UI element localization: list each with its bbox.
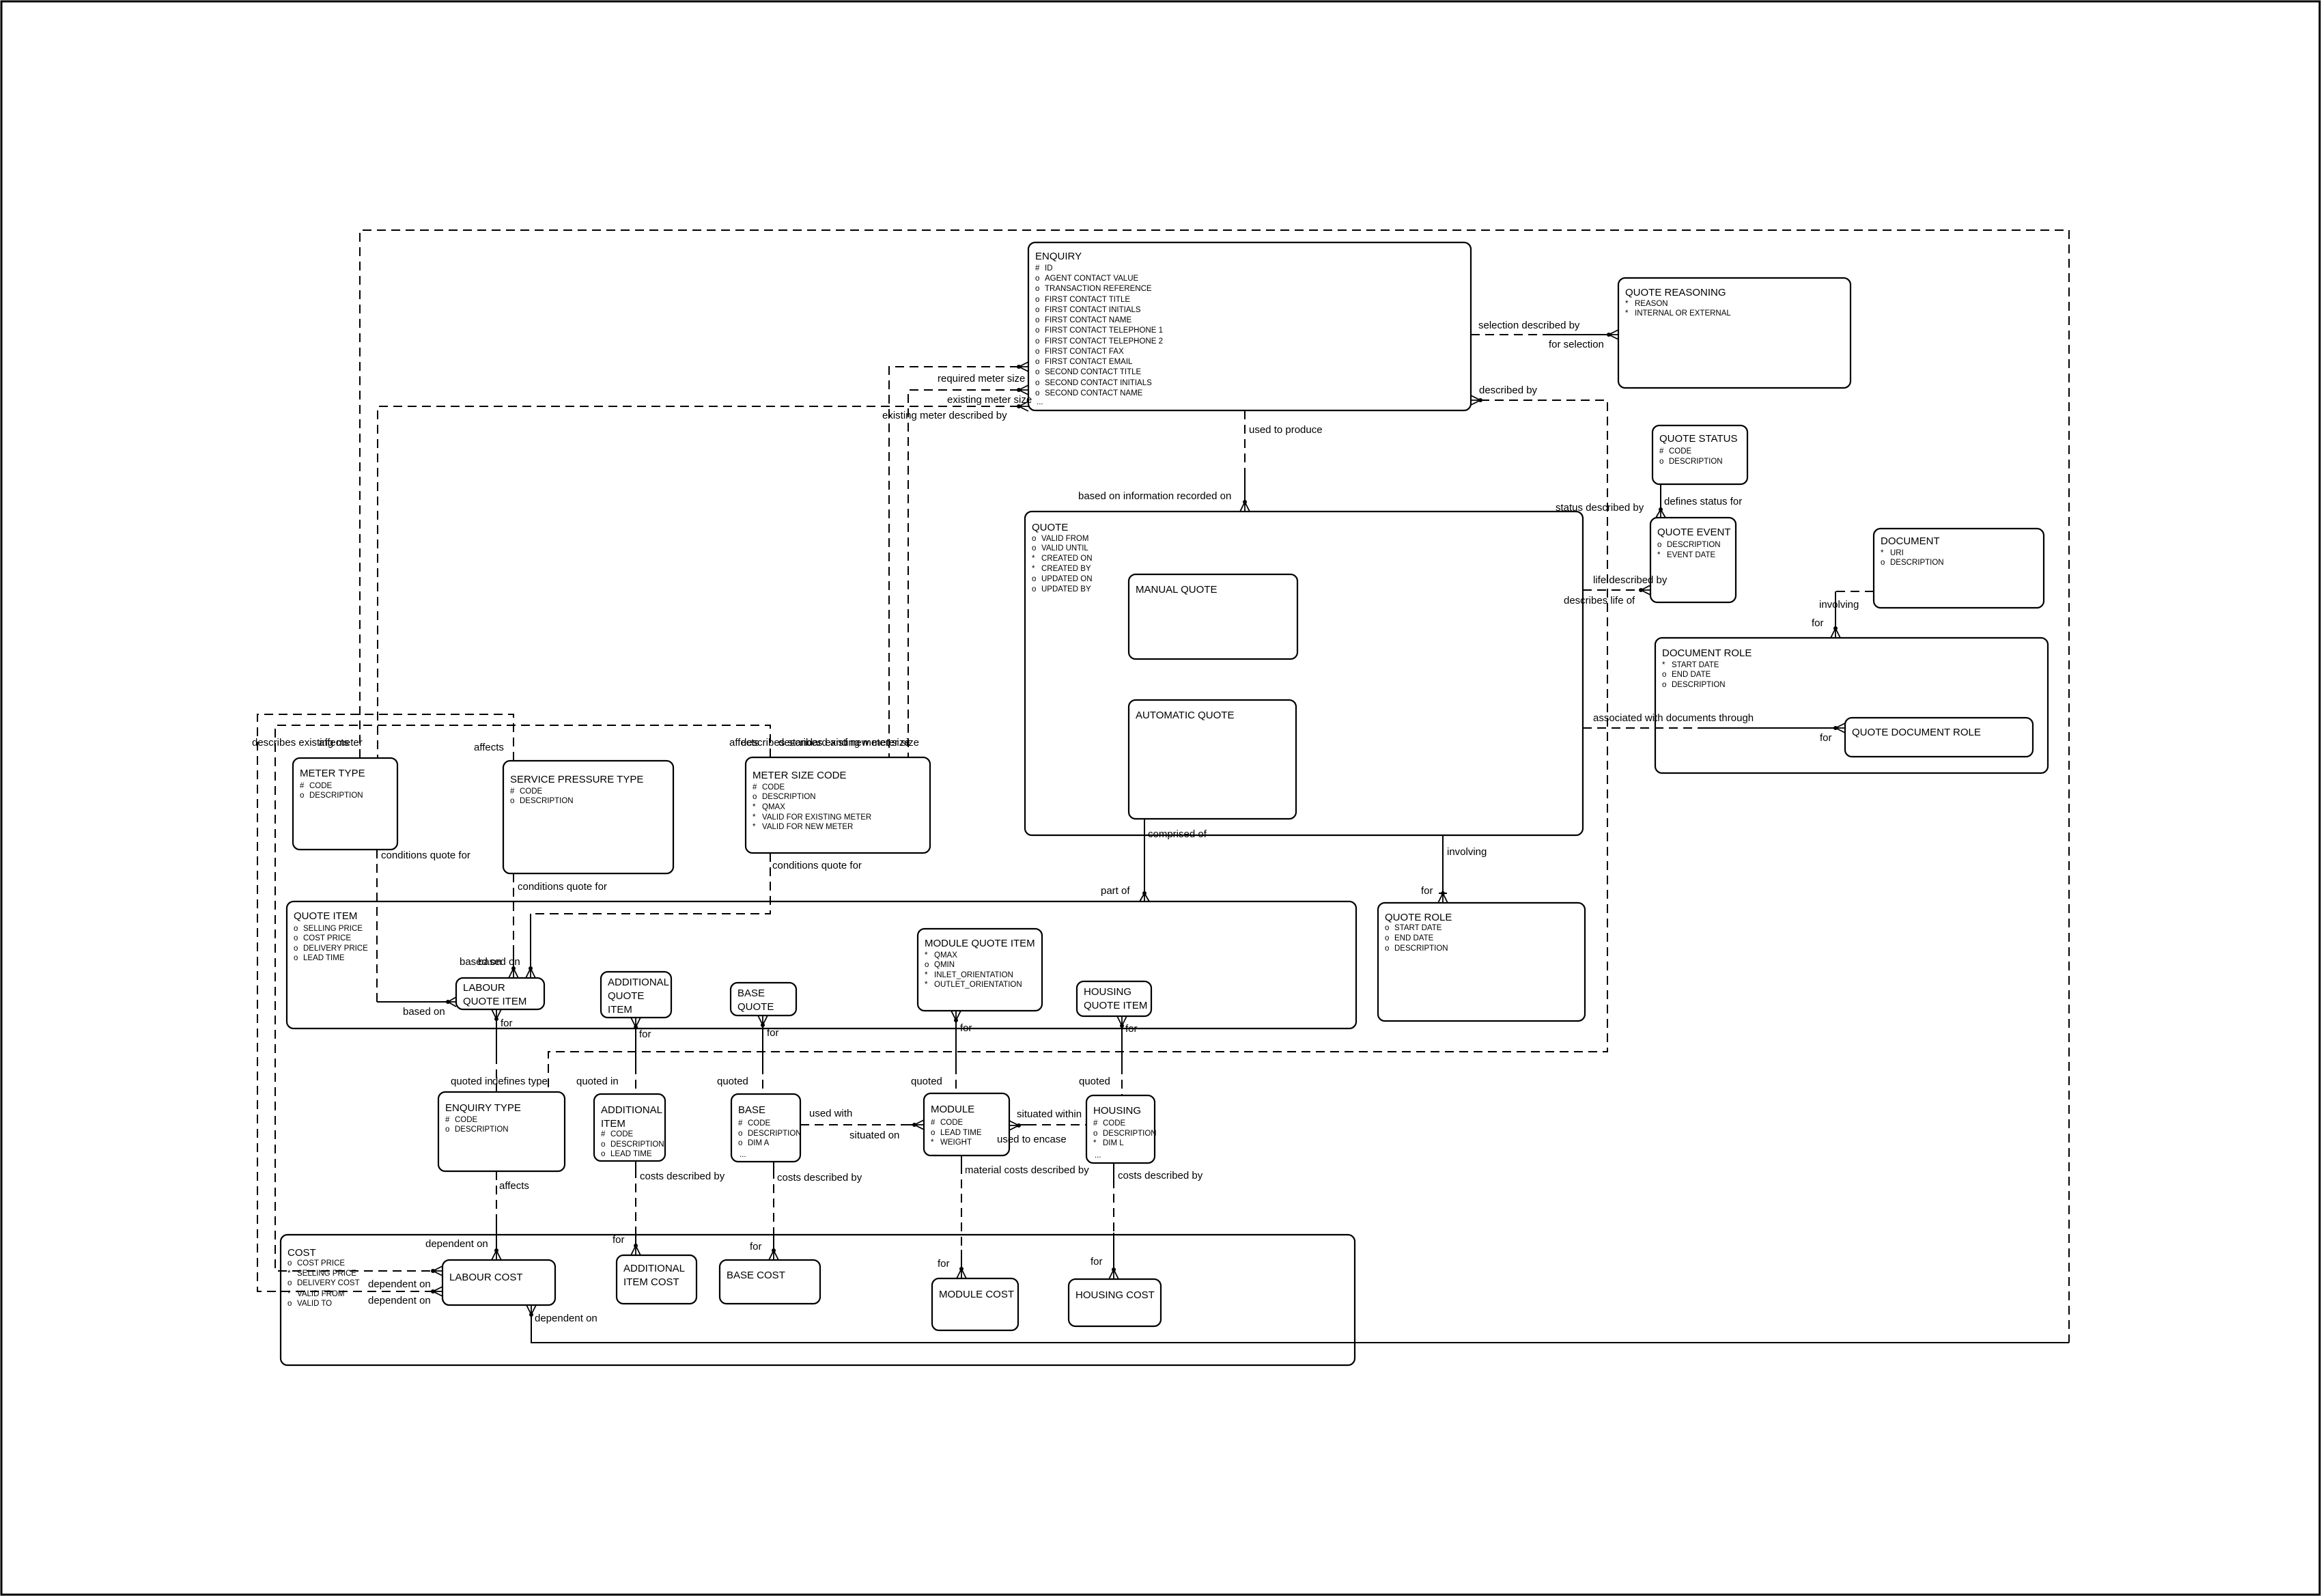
svg-text:FIRST CONTACT TITLE: FIRST CONTACT TITLE	[1045, 296, 1130, 304]
svg-text:DESCRIPTION: DESCRIPTION	[1669, 458, 1723, 466]
svg-text:QUOTE ITEM: QUOTE ITEM	[1084, 1000, 1147, 1011]
svg-text:QMAX: QMAX	[762, 803, 785, 811]
svg-text:based on: based on	[403, 1006, 445, 1018]
svg-text:o: o	[1035, 296, 1039, 304]
svg-text:AUTOMATIC QUOTE: AUTOMATIC QUOTE	[1136, 710, 1234, 721]
svg-text:o: o	[445, 1125, 449, 1134]
svg-text:affects: affects	[499, 1180, 529, 1192]
svg-text:MANUAL QUOTE: MANUAL QUOTE	[1136, 584, 1217, 596]
svg-text:CODE: CODE	[309, 782, 333, 790]
svg-text:WEIGHT: WEIGHT	[940, 1138, 972, 1147]
svg-text:o: o	[287, 1279, 292, 1287]
svg-text:QUOTE DOCUMENT ROLE: QUOTE DOCUMENT ROLE	[1852, 727, 1981, 738]
svg-text:o: o	[1881, 559, 1885, 567]
svg-text:part of: part of	[1101, 885, 1130, 897]
svg-text:#: #	[445, 1116, 450, 1124]
svg-text:o: o	[931, 1129, 935, 1137]
svg-text:quoted in: quoted in	[451, 1076, 493, 1087]
svg-text:DOCUMENT: DOCUMENT	[1881, 535, 1940, 547]
svg-text:o: o	[1032, 575, 1036, 583]
svg-text:CODE: CODE	[520, 787, 543, 796]
svg-text:o: o	[1035, 316, 1039, 324]
svg-text:...: ...	[740, 1151, 746, 1159]
svg-text:LEAD TIME: LEAD TIME	[610, 1150, 652, 1158]
svg-text:quoted: quoted	[911, 1076, 942, 1087]
svg-text:o: o	[1385, 924, 1389, 932]
svg-text:...: ...	[1095, 1151, 1101, 1160]
svg-text:HOUSING: HOUSING	[1084, 986, 1131, 998]
svg-text:AGENT CONTACT VALUE: AGENT CONTACT VALUE	[1045, 275, 1139, 283]
svg-text:CODE: CODE	[1669, 447, 1692, 456]
svg-text:*: *	[1032, 555, 1035, 563]
svg-text:o: o	[1032, 544, 1036, 552]
svg-text:#: #	[1093, 1119, 1098, 1128]
svg-text:for: for	[1820, 732, 1832, 744]
svg-text:QMAX: QMAX	[934, 951, 957, 960]
svg-text:*: *	[1662, 661, 1665, 669]
svg-text:affects: affects	[319, 737, 349, 748]
svg-text:*: *	[1657, 551, 1661, 559]
svg-text:ITEM: ITEM	[608, 1004, 632, 1016]
svg-text:*: *	[287, 1270, 291, 1278]
svg-text:required meter size: required meter size	[938, 373, 1025, 384]
svg-text:o: o	[1657, 541, 1661, 549]
svg-text:*: *	[1625, 300, 1629, 308]
svg-text:ADDITIONAL: ADDITIONAL	[601, 1104, 662, 1116]
svg-text:MODULE: MODULE	[931, 1104, 974, 1115]
svg-text:VALID FOR NEW METER: VALID FOR NEW METER	[762, 823, 853, 831]
svg-text:URI: URI	[1890, 549, 1904, 557]
svg-text:*: *	[752, 813, 756, 822]
svg-text:o: o	[287, 1259, 292, 1268]
svg-text:VALID FOR EXISTING METER: VALID FOR EXISTING METER	[762, 813, 871, 822]
svg-text:QUOTE STATUS: QUOTE STATUS	[1659, 433, 1737, 445]
svg-text:SERVICE PRESSURE TYPE: SERVICE PRESSURE TYPE	[510, 774, 643, 785]
svg-text:OUTLET_ORIENTATION: OUTLET_ORIENTATION	[934, 981, 1022, 989]
svg-text:REASON: REASON	[1635, 300, 1668, 308]
svg-text:SELLING PRICE: SELLING PRICE	[297, 1270, 356, 1278]
svg-text:o: o	[300, 792, 304, 800]
svg-text:o: o	[510, 797, 514, 805]
svg-text:ADDITIONAL: ADDITIONAL	[623, 1263, 685, 1274]
svg-text:COST PRICE: COST PRICE	[297, 1259, 345, 1268]
svg-text:costs described by: costs described by	[777, 1172, 862, 1184]
svg-text:o: o	[1035, 306, 1039, 314]
svg-text:QUOTE REASONING: QUOTE REASONING	[1625, 287, 1726, 298]
svg-text:EVENT DATE: EVENT DATE	[1667, 551, 1715, 559]
svg-text:#: #	[931, 1119, 936, 1127]
svg-text:SECOND CONTACT TITLE: SECOND CONTACT TITLE	[1045, 368, 1142, 376]
svg-text:*: *	[1093, 1139, 1097, 1147]
svg-text:o: o	[601, 1140, 605, 1149]
svg-text:dependent on: dependent on	[535, 1313, 597, 1324]
svg-text:o: o	[294, 925, 298, 933]
svg-text:SECOND CONTACT INITIALS: SECOND CONTACT INITIALS	[1045, 379, 1152, 387]
svg-text:...: ...	[932, 1149, 939, 1158]
svg-text:BASE: BASE	[738, 1104, 765, 1116]
svg-text:o: o	[601, 1150, 605, 1158]
svg-text:QUOTE ITEM: QUOTE ITEM	[294, 910, 357, 922]
svg-text:for selection: for selection	[1549, 339, 1604, 350]
svg-text:costs described by: costs described by	[1118, 1170, 1203, 1181]
svg-text:o: o	[738, 1139, 742, 1147]
svg-text:QUOTE EVENT: QUOTE EVENT	[1657, 527, 1731, 538]
svg-text:VALID TO: VALID TO	[297, 1300, 332, 1308]
svg-text:ADDITIONAL: ADDITIONAL	[608, 977, 669, 988]
svg-text:describes existing meter size: describes existing meter size	[778, 737, 910, 748]
svg-text:o: o	[752, 793, 757, 801]
svg-text:costs described by: costs described by	[640, 1171, 725, 1182]
svg-text:status described by: status described by	[1556, 502, 1644, 514]
svg-text:MODULE COST: MODULE COST	[939, 1289, 1014, 1300]
svg-text:o: o	[1035, 285, 1039, 293]
svg-text:QUOTE ITEM: QUOTE ITEM	[463, 996, 526, 1007]
svg-text:METER SIZE CODE: METER SIZE CODE	[752, 770, 847, 781]
svg-text:DESCRIPTION: DESCRIPTION	[1890, 559, 1944, 567]
svg-text:dependent on: dependent on	[368, 1278, 431, 1290]
svg-text:situated on: situated on	[849, 1130, 899, 1141]
svg-text:for: for	[501, 1018, 513, 1029]
svg-text:DIM L: DIM L	[1103, 1139, 1124, 1147]
svg-text:FIRST CONTACT INITIALS: FIRST CONTACT INITIALS	[1045, 306, 1141, 314]
svg-text:situated within: situated within	[1017, 1108, 1082, 1120]
svg-text:VALID FROM: VALID FROM	[1041, 535, 1088, 543]
svg-text:DOCUMENT ROLE: DOCUMENT ROLE	[1662, 647, 1752, 659]
svg-text:INLET_ORIENTATION: INLET_ORIENTATION	[934, 971, 1013, 979]
svg-text:o: o	[1032, 535, 1036, 543]
svg-text:ENQUIRY: ENQUIRY	[1035, 251, 1082, 262]
svg-text:LEAD TIME: LEAD TIME	[940, 1129, 982, 1137]
svg-text:*: *	[931, 1138, 934, 1147]
svg-text:described by: described by	[1479, 384, 1538, 396]
svg-text:conditions quote for: conditions quote for	[381, 850, 470, 861]
svg-text:CREATED BY: CREATED BY	[1041, 565, 1091, 573]
svg-text:#: #	[1659, 447, 1664, 456]
svg-text:involving: involving	[1447, 846, 1487, 858]
svg-text:*: *	[1881, 549, 1884, 557]
svg-text:conditions quote for: conditions quote for	[518, 881, 607, 893]
svg-text:for: for	[767, 1027, 779, 1039]
svg-text:DESCRIPTION: DESCRIPTION	[1103, 1130, 1157, 1138]
svg-text:based on information recorded: based on information recorded on	[1078, 490, 1231, 502]
svg-text:FIRST CONTACT EMAIL: FIRST CONTACT EMAIL	[1045, 358, 1133, 366]
svg-text:for: for	[1812, 617, 1824, 629]
svg-text:METER TYPE: METER TYPE	[300, 768, 365, 779]
svg-text:o: o	[287, 1300, 292, 1308]
svg-text:#: #	[752, 783, 757, 792]
svg-text:based on: based on	[478, 956, 520, 968]
svg-text:o: o	[1385, 944, 1389, 953]
svg-text:for: for	[1125, 1023, 1138, 1035]
svg-text:SELLING PRICE: SELLING PRICE	[303, 925, 363, 933]
svg-text:conditions quote for: conditions quote for	[772, 860, 862, 871]
svg-text:QMIN: QMIN	[934, 961, 955, 969]
svg-text:for: for	[960, 1022, 972, 1034]
svg-text:#: #	[738, 1119, 743, 1128]
svg-text:o: o	[294, 954, 298, 962]
svg-text:DESCRIPTION: DESCRIPTION	[309, 792, 363, 800]
svg-text:CREATED ON: CREATED ON	[1041, 555, 1093, 563]
svg-text:for: for	[639, 1028, 651, 1040]
svg-text:quoted: quoted	[1079, 1076, 1110, 1087]
svg-text:selection described by: selection described by	[1478, 320, 1580, 331]
svg-text:DELIVERY COST: DELIVERY COST	[297, 1279, 360, 1287]
svg-text:comprised of: comprised of	[1148, 828, 1207, 840]
svg-text:COST PRICE: COST PRICE	[303, 934, 351, 942]
svg-text:HOUSING COST: HOUSING COST	[1075, 1289, 1155, 1301]
svg-text:CODE: CODE	[762, 783, 785, 792]
svg-text:associated with documents thro: associated with documents through	[1593, 712, 1754, 724]
svg-text:used to encase: used to encase	[997, 1134, 1067, 1145]
svg-text:*: *	[925, 971, 928, 979]
svg-text:*: *	[752, 803, 756, 811]
svg-text:LEAD TIME: LEAD TIME	[303, 954, 345, 962]
svg-text:o: o	[1662, 671, 1666, 679]
svg-text:BASE: BASE	[737, 988, 765, 999]
svg-text:CODE: CODE	[940, 1119, 963, 1127]
svg-text:*: *	[287, 1290, 291, 1298]
svg-text:material costs described by: material costs described by	[965, 1164, 1089, 1176]
svg-text:*: *	[752, 823, 756, 831]
svg-text:o: o	[1035, 358, 1039, 366]
svg-text:ENQUIRY TYPE: ENQUIRY TYPE	[445, 1102, 521, 1114]
svg-text:VALID FROM: VALID FROM	[297, 1290, 344, 1298]
svg-text:UPDATED BY: UPDATED BY	[1041, 585, 1091, 593]
svg-text:START DATE: START DATE	[1394, 924, 1442, 932]
svg-text:UPDATED ON: UPDATED ON	[1041, 575, 1093, 583]
svg-text:used with: used with	[809, 1108, 852, 1119]
svg-text:TRANSACTION REFERENCE: TRANSACTION REFERENCE	[1045, 285, 1152, 293]
svg-text:existing meter size: existing meter size	[947, 394, 1032, 406]
svg-text:*: *	[1625, 309, 1629, 318]
svg-text:MODULE QUOTE ITEM: MODULE QUOTE ITEM	[925, 938, 1035, 949]
svg-text:o: o	[1035, 275, 1039, 283]
svg-text:for: for	[613, 1234, 625, 1246]
svg-text:o: o	[1035, 389, 1039, 397]
svg-text:*: *	[925, 981, 928, 989]
svg-text:ITEM COST: ITEM COST	[623, 1276, 679, 1288]
svg-text:QUOTE: QUOTE	[608, 990, 644, 1002]
svg-text:o: o	[738, 1130, 742, 1138]
svg-text:for: for	[750, 1241, 762, 1252]
svg-text:QUOTE: QUOTE	[1032, 522, 1068, 533]
svg-text:DESCRIPTION: DESCRIPTION	[1667, 541, 1721, 549]
svg-text:DESCRIPTION: DESCRIPTION	[762, 793, 816, 801]
svg-text:DESCRIPTION: DESCRIPTION	[1394, 944, 1448, 953]
svg-text:INTERNAL OR EXTERNAL: INTERNAL OR EXTERNAL	[1635, 309, 1731, 318]
svg-text:LABOUR: LABOUR	[463, 982, 505, 994]
svg-text:VALID UNTIL: VALID UNTIL	[1041, 544, 1088, 552]
svg-text:o: o	[1662, 681, 1666, 689]
svg-text:dependent on: dependent on	[425, 1238, 488, 1250]
svg-text:#: #	[1035, 264, 1040, 272]
svg-text:FIRST CONTACT TELEPHONE 1: FIRST CONTACT TELEPHONE 1	[1045, 326, 1163, 335]
svg-text:ITEM: ITEM	[601, 1118, 625, 1130]
svg-text:ID: ID	[1045, 264, 1053, 272]
svg-text:quoted in: quoted in	[576, 1076, 619, 1087]
svg-text:for: for	[1091, 1256, 1103, 1268]
svg-text:CODE: CODE	[455, 1116, 478, 1124]
svg-text:HOUSING: HOUSING	[1093, 1105, 1141, 1117]
svg-text:CODE: CODE	[610, 1130, 634, 1138]
svg-text:defines status for: defines status for	[1664, 496, 1742, 507]
svg-text:COST: COST	[287, 1247, 316, 1259]
svg-text:DESCRIPTION: DESCRIPTION	[520, 797, 574, 805]
svg-text:describes life of: describes life of	[1564, 595, 1635, 606]
svg-text:DESCRIPTION: DESCRIPTION	[610, 1140, 664, 1149]
svg-text:START DATE: START DATE	[1672, 661, 1719, 669]
svg-text:QUOTE ROLE: QUOTE ROLE	[1385, 912, 1452, 923]
svg-text:#: #	[510, 787, 515, 796]
svg-text:SECOND CONTACT NAME: SECOND CONTACT NAME	[1045, 389, 1143, 397]
svg-text:QUOTE: QUOTE	[737, 1001, 774, 1013]
svg-text:*: *	[1032, 565, 1035, 573]
svg-text:o: o	[925, 961, 929, 969]
svg-text:for: for	[1421, 885, 1433, 897]
svg-text:existing meter described by: existing meter described by	[882, 410, 1007, 421]
svg-text:o: o	[1032, 585, 1036, 593]
svg-text:CODE: CODE	[748, 1119, 771, 1128]
svg-text:DELIVERY PRICE: DELIVERY PRICE	[303, 944, 368, 953]
svg-text:o: o	[1035, 368, 1039, 376]
svg-text:o: o	[294, 944, 298, 953]
svg-text:DESCRIPTION: DESCRIPTION	[748, 1130, 802, 1138]
svg-text:o: o	[1659, 458, 1663, 466]
svg-text:...: ...	[1037, 398, 1043, 406]
svg-text:END DATE: END DATE	[1672, 671, 1711, 679]
svg-text:#: #	[300, 782, 305, 790]
svg-text:o: o	[1385, 934, 1389, 942]
svg-text:o: o	[1035, 337, 1039, 346]
svg-text:FIRST CONTACT FAX: FIRST CONTACT FAX	[1045, 348, 1124, 356]
svg-text:o: o	[1093, 1130, 1097, 1138]
svg-text:o: o	[1035, 379, 1039, 387]
svg-text:o: o	[1035, 348, 1039, 356]
svg-text:affects: affects	[474, 742, 504, 753]
svg-text:CODE: CODE	[1103, 1119, 1126, 1128]
svg-text:DIM A: DIM A	[748, 1139, 770, 1147]
svg-text:#: #	[601, 1130, 606, 1138]
svg-text:LABOUR COST: LABOUR COST	[449, 1272, 523, 1283]
svg-text:dependent on: dependent on	[368, 1295, 431, 1306]
svg-text:defines type: defines type	[492, 1076, 548, 1087]
svg-text:FIRST CONTACT NAME: FIRST CONTACT NAME	[1045, 316, 1131, 324]
svg-text:END DATE: END DATE	[1394, 934, 1434, 942]
svg-text:DESCRIPTION: DESCRIPTION	[1672, 681, 1726, 689]
svg-text:o: o	[294, 934, 298, 942]
svg-text:quoted: quoted	[717, 1076, 748, 1087]
svg-text:for: for	[938, 1258, 950, 1270]
svg-text:*: *	[925, 951, 928, 960]
svg-text:DESCRIPTION: DESCRIPTION	[455, 1125, 509, 1134]
svg-text:o: o	[1035, 326, 1039, 335]
svg-text:life described by: life described by	[1593, 574, 1668, 586]
svg-text:FIRST CONTACT TELEPHONE 2: FIRST CONTACT TELEPHONE 2	[1045, 337, 1163, 346]
svg-text:BASE COST: BASE COST	[727, 1270, 785, 1281]
svg-text:used to produce: used to produce	[1249, 424, 1323, 436]
svg-text:involving: involving	[1819, 599, 1859, 611]
